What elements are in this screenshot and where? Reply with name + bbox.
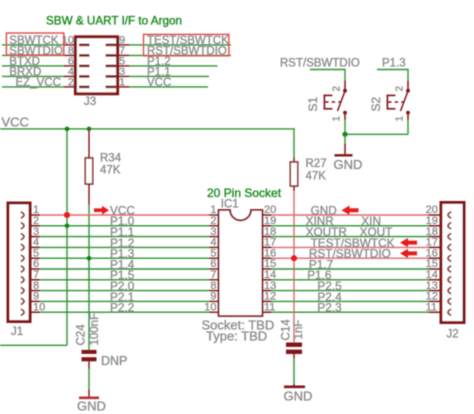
J1 pin stub 9 [30,300,40,302]
wire R34 lower to P1.3 row and C24 [88,205,90,350]
J2 pin chevron 17 [448,244,451,250]
GND symbol below switches [344,134,346,143]
IC1 pin stub 20 [262,214,271,216]
arrow marker at RST/SBWTDIO row [400,249,417,258]
junction dot P1.3 row / x89 [87,256,92,261]
J1 pin stub 3 [30,236,40,238]
IC1 pin stub 18 [262,236,271,238]
wire net RST/SBWTDIO (row 16 right) [272,257,429,259]
J1 pin chevron 8 [21,287,24,293]
svg-text:VCC: VCC [2,115,29,130]
svg-text:GND: GND [334,157,363,172]
resistor R34 body [85,158,92,184]
svg-text:GND: GND [77,399,106,414]
wire net P1.1 (J3 right pin 3) [118,75,130,77]
svg-text:J2: J2 [447,329,459,341]
C14 lower lead / wire to GND [293,354,295,359]
annotation box around SBWTCK/SBWTDIO [6,33,63,55]
J2 pin stub 20 [429,214,442,216]
wire RST/SBWTDIO to S1 pin 2 [310,69,345,71]
J2 pin chevron 11 [448,309,451,315]
connector J2 body [441,203,464,323]
J1 pin stub 7 [30,279,40,281]
J1 pin stub 10 [30,311,40,313]
IC1 pin stub 14 [262,279,271,281]
svg-text:RST/SBWTDIO: RST/SBWTDIO [280,58,360,70]
junction dot P1.0 row / x67 [65,224,70,229]
capacitor C24 plates [82,350,97,354]
J2 pin stub 18 [429,236,442,238]
svg-text:C14: C14 [281,319,293,341]
J1 pin stub 8 [30,290,40,292]
J1 pin chevron 3 [21,233,24,239]
J2 pin stub 14 [429,279,442,281]
J1 pin stub 4 [30,246,40,248]
J1 pin stub 1 [30,214,40,216]
wire joining S1/S2 bottoms [345,133,408,135]
svg-text:XOUT: XOUT [360,225,393,239]
J3 internal pin dash left row 1 [79,44,90,47]
wire net P1.4 (row 6 left) [40,268,209,270]
J2 pin stub 19 [429,225,442,227]
wire net P1.3 (row 5 left) [40,257,209,259]
wire R27 to RST row and C14 (highlighted) [293,191,295,343]
J2 pin chevron 13 [448,287,451,293]
wire S1 pin1 to junction [344,120,346,134]
svg-text:2: 2 [68,77,74,89]
wire net SBWTDIO (J3 left pin 8) [2,54,64,56]
svg-text:20 Pin Socket: 20 Pin Socket [207,186,282,200]
svg-text:1nF: 1nF [293,320,305,340]
svg-text:DNP: DNP [101,354,127,368]
resistor R34 leads [88,129,90,158]
J1 pin chevron 2 [21,223,24,229]
svg-text:10: 10 [33,301,45,313]
wire net P2.3 (row 11 right) [272,311,429,313]
junction dot at S1 bottom [342,132,347,137]
J1 pin chevron 5 [21,255,24,261]
wire net GND (row 20 right) [272,214,429,216]
svg-text:S1: S1 [306,96,320,111]
GND symbol below C24 [79,396,99,399]
svg-text:J3: J3 [84,96,96,108]
wire VCC rail [0,128,294,130]
J2 pin stub 15 [429,268,442,270]
resistor R27 body [290,162,297,186]
IC1 pin stub 15 [262,268,271,270]
J2 pin chevron 18 [448,233,451,239]
J2 pin stub 11 [429,311,442,313]
wire net EZ_VCC (J3 left pin 2) [2,86,64,88]
svg-text:1: 1 [332,116,343,122]
svg-text:VCC: VCC [147,77,171,89]
IC1 pin stub 13 [262,290,271,292]
J2 pin chevron 20 [448,212,451,218]
J2 pin stub 12 [429,300,442,302]
J1 pin stub 6 [30,268,40,270]
J1 pin chevron 7 [21,277,24,283]
J2 pin chevron 16 [448,255,451,261]
J1 pin stub 2 [30,225,40,227]
wire net P2.5 (row 13 right) [272,290,429,292]
J1 pin chevron 6 [21,266,24,272]
svg-text:10: 10 [204,301,216,313]
J1 pin chevron 4 [21,244,24,250]
wire net P1.7 (row 15 right) [272,268,429,270]
wire net TEST/SBWTCK (J3 right pin 9) [118,44,130,46]
IC1 pin stub 16 [262,257,271,259]
svg-text:47K: 47K [306,171,327,183]
wire net TEST/SBWTCK (row 17 right) [272,246,429,248]
junction dot VCC row / x67 (highlighted) [64,212,70,218]
wire net P2.4 (row 12 right) [272,300,429,302]
connector J1 body [8,203,30,322]
svg-text:2: 2 [395,86,406,92]
resistor R27 leads [293,157,295,162]
J2 pin stub 17 [429,246,442,248]
svg-text:2: 2 [332,86,343,92]
IC IC1 body (20 pin socket) [219,210,263,316]
J3 internal pin dash right row 3 [106,65,117,68]
switch S2 lever [401,91,409,111]
arrow marker at TEST/SBWTCK row [400,238,417,247]
J1 pin chevron 1 [21,212,24,218]
switch S1 pin 2 lead [344,81,346,92]
J1 pin chevron 10 [21,309,24,315]
wire net XOUTR (row 18 right) [272,236,429,238]
GND symbol below C14 [284,385,305,388]
wire net P2.1 (row 9 left) [40,300,209,302]
svg-text:1: 1 [395,116,406,122]
J2 pin chevron 15 [448,266,451,272]
svg-text:C24: C24 [76,324,88,346]
J3 internal pin dash left row 5 [79,86,90,89]
junction dot rail/x89 [87,127,92,132]
annotation box around TEST/SBWTCK and RST/SBWTDIO [144,34,229,55]
J2 pin chevron 12 [448,298,451,304]
wire net RST/SBWTDIO (J3 right pin 7) [118,54,130,56]
svg-text:Type: TBD: Type: TBD [206,328,267,343]
switch S2 actuator [386,95,388,110]
svg-text:J1: J1 [11,326,23,338]
switch S2 pin 1 lead [406,111,410,115]
wire net P1.6 (row 14 right) [272,279,429,281]
J3 internal pin dash left row 2 [79,54,90,57]
J3 internal pin dash right row 1 [106,44,117,47]
svg-text:SBW & UART I/F to Argon: SBW & UART I/F to Argon [46,14,182,27]
junction dot RST row / R27 (highlighted) [291,255,297,261]
wire net P2.0 (row 8 left) [40,290,209,292]
wire S2 pin1 to junction [407,120,409,134]
svg-text:S2: S2 [369,96,383,111]
switch S1 pin 1 lead [343,111,347,115]
svg-text:P1.3: P1.3 [382,58,406,70]
J2 pin stub 16 [429,257,442,259]
wire net VCC (row 1 left) [40,214,209,216]
svg-text:11: 11 [264,301,275,313]
wire net XINR (row 19 right) [272,225,429,227]
wire net P1.2 (J3 right pin 5) [118,65,130,67]
svg-text:P2.3: P2.3 [317,301,342,315]
switch S2 pin 2 lead [407,81,409,92]
wire net P1.0 (row 2 left) [40,225,209,227]
wire net BTXD (J3 left pin 6) [2,65,64,67]
J3 internal pin dash right row 2 [106,54,117,57]
wire net P1.1 (row 3 left) [40,236,209,238]
svg-text:EZ_VCC: EZ_VCC [16,77,61,89]
J3 internal pin dash left row 3 [79,65,90,68]
wire rail corner down to R27 [293,128,295,157]
svg-text:GND: GND [284,389,313,404]
J3 internal pin dash left row 4 [79,75,90,78]
wire P1.3 to S2 pin 2 [377,69,408,71]
svg-text:IC1: IC1 [221,198,239,210]
J1 pin chevron 9 [21,298,24,304]
arrow marker at GND row [342,206,359,215]
J1 pin stub 5 [30,257,40,259]
svg-text:R27: R27 [306,158,327,170]
J3 internal pin dash right row 5 [106,86,117,89]
IC1 pin stub 11 [262,311,271,313]
wire net P1.2 (row 4 left) [40,246,209,248]
IC1 pin stub 17 [262,246,271,248]
switch S1 lever [338,91,346,111]
J3 internal pin dash right row 4 [106,75,117,78]
svg-text:1: 1 [119,77,125,89]
J2 pin chevron 14 [448,277,451,283]
wire net BRXD (J3 left pin 4) [2,75,64,77]
capacitor C14 plates [286,343,302,347]
IC1 pin stub 19 [262,225,271,227]
svg-text:P2.2: P2.2 [110,301,134,315]
J2 pin stub 13 [429,290,442,292]
wire VCC drop to row 1 and bottom-left [66,129,68,345]
wire net P2.2 (row 10 left) [40,311,209,313]
C24 lower lead / wire to GND [88,361,90,369]
junction dot rail/x67 [65,127,70,132]
svg-text:11: 11 [426,301,437,313]
switch S1 actuator [323,95,325,110]
svg-text:R34: R34 [100,153,122,165]
wire net VCC (J3 right pin 1) [118,86,130,88]
IC1 pin stub 12 [262,300,271,302]
J2 pin chevron 19 [448,223,451,229]
arrow marker at VCC row [94,206,109,215]
wire net P1.5 (row 7 left) [40,279,209,281]
svg-text:100nF: 100nF [89,313,101,346]
svg-text:47K: 47K [100,165,121,177]
connector J3 body [75,37,117,94]
wire net SBWTCK (J3 left pin 10) [2,44,64,46]
